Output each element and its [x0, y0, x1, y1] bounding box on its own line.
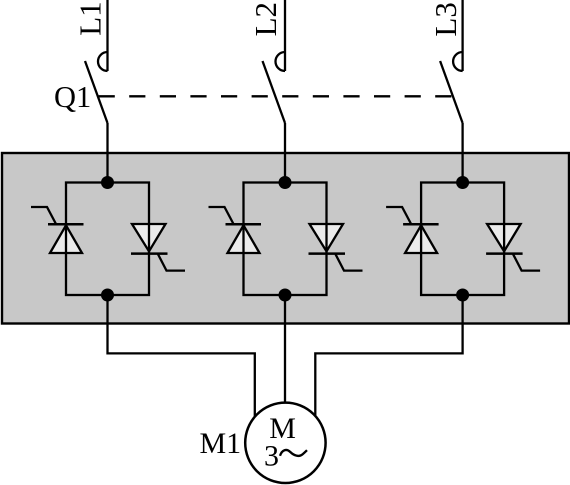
svg-text:L1: L1 [73, 1, 108, 35]
svg-text:3: 3 [264, 440, 279, 473]
svg-text:M1: M1 [200, 427, 242, 460]
svg-text:L3: L3 [428, 2, 463, 36]
svg-text:L2: L2 [248, 2, 283, 36]
svg-text:Q1: Q1 [54, 80, 91, 114]
